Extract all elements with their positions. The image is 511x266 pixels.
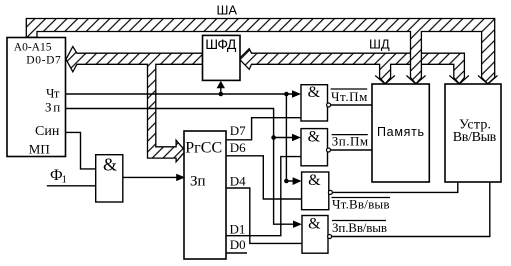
svg-text:&: &	[308, 84, 321, 101]
svg-text:Вв/Выв: Вв/Выв	[453, 130, 497, 145]
svg-text:1: 1	[62, 173, 68, 185]
svg-text:&: &	[308, 216, 321, 233]
svg-text:ШФД: ШФД	[205, 36, 237, 52]
svg-text:Син: Син	[35, 124, 60, 139]
svg-text:&: &	[308, 129, 321, 146]
svg-text:Чт.Пм: Чт.Пм	[331, 89, 367, 104]
svg-text:РгСС: РгСС	[185, 139, 222, 156]
svg-text:D0: D0	[230, 237, 246, 252]
svg-text:A0-A15: A0-A15	[14, 41, 52, 53]
svg-text:D6: D6	[230, 140, 246, 155]
svg-text:МП: МП	[29, 142, 50, 157]
svg-text:ШД: ШД	[369, 36, 390, 51]
svg-text:Зп.Пм: Зп.Пм	[332, 134, 368, 149]
svg-text:Чт: Чт	[46, 86, 60, 101]
svg-text:Память: Память	[377, 125, 424, 139]
svg-text:ША: ША	[217, 3, 238, 18]
svg-text:Зп.Вв/выв: Зп.Вв/выв	[332, 220, 387, 235]
svg-text:Чт.Вв/выв: Чт.Вв/выв	[332, 197, 390, 212]
svg-text:Зп: Зп	[190, 174, 206, 190]
svg-text:Зп: Зп	[45, 100, 60, 115]
svg-text:&: &	[308, 172, 321, 189]
svg-text:D4: D4	[230, 174, 246, 189]
svg-text:&: &	[103, 155, 117, 175]
svg-text:D1: D1	[230, 221, 246, 236]
svg-text:D7: D7	[230, 123, 246, 138]
svg-text:D0-D7: D0-D7	[26, 55, 61, 67]
